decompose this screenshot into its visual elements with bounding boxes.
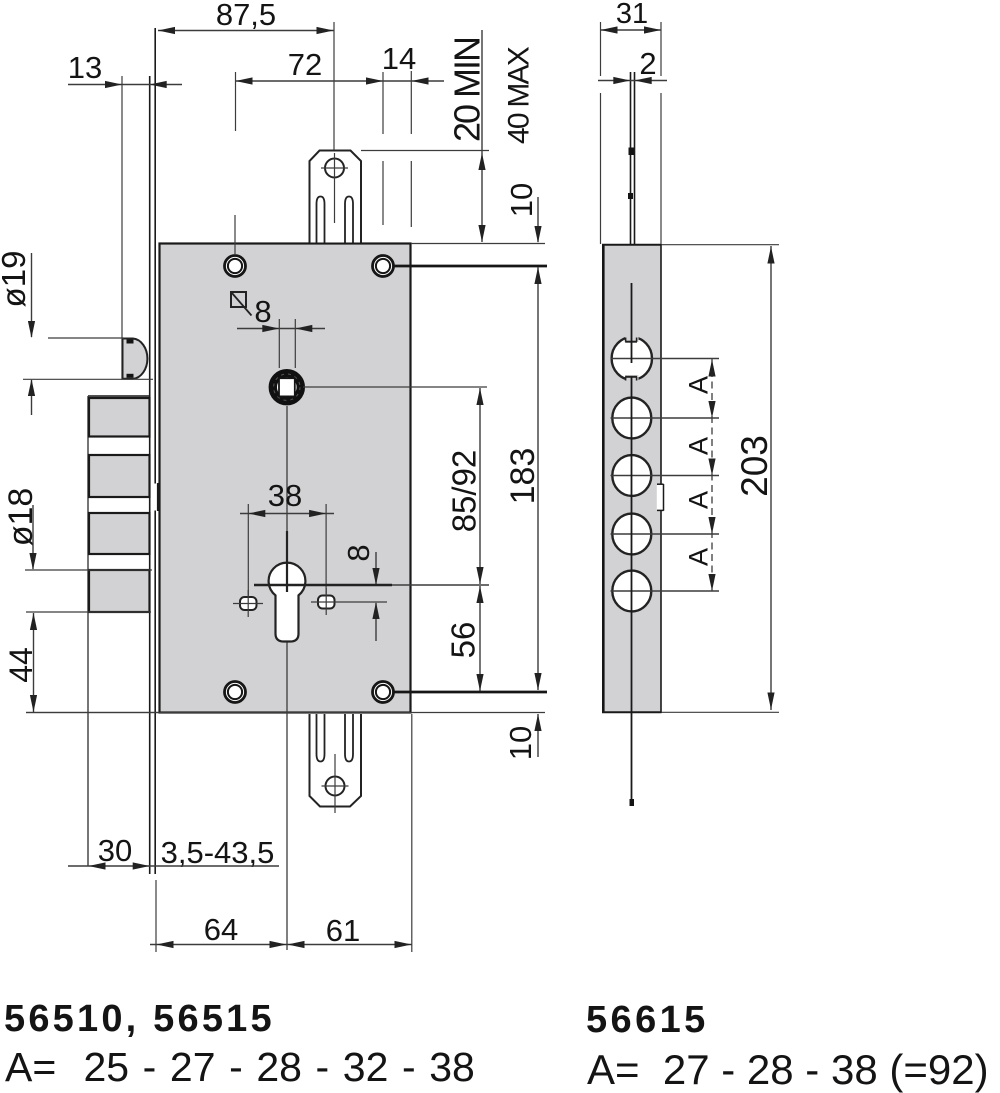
square spindle symbol [231, 292, 246, 307]
dimension 203 [734, 435, 775, 497]
svg-text:A: A [684, 548, 714, 566]
svg-text:20 MIN: 20 MIN [447, 38, 488, 142]
hole bottom-right [373, 682, 394, 703]
pin circle 1 (latch) [612, 337, 652, 380]
dimension 13 [68, 84, 182, 86]
dimension 56 [445, 622, 482, 659]
svg-text:2: 2 [639, 46, 656, 81]
fixing hole right [318, 596, 335, 609]
dimension 44 [3, 647, 39, 683]
centerline top-left hole [235, 72, 237, 131]
svg-text:56615: 56615 [586, 999, 709, 1041]
svg-text:30: 30 [98, 833, 132, 868]
pin center lines [611, 358, 720, 360]
svg-text:38: 38 [268, 478, 302, 513]
dimension ø19 [0, 251, 32, 308]
top tab slot left [317, 197, 325, 243]
cylinder horizontal reference [254, 584, 392, 586]
svg-text:ø19: ø19 [0, 251, 32, 308]
svg-text:61: 61 [326, 913, 360, 948]
dimension 14 [412, 77, 429, 84]
svg-text:3,5-43,5: 3,5-43,5 [161, 835, 275, 870]
top tab slot right [345, 197, 353, 243]
dimension ø18 [2, 488, 40, 547]
label A 3 [684, 491, 714, 509]
label A 4 [684, 548, 714, 566]
bottom hole reference line [394, 691, 548, 694]
euro cylinder hole [269, 563, 306, 642]
svg-text:56: 56 [445, 622, 482, 659]
tab top edge extension [361, 150, 489, 152]
side body [603, 245, 662, 713]
svg-text:A: A [684, 491, 714, 509]
body right edge extension up [410, 71, 412, 134]
dimension 87,5 [158, 30, 334, 32]
bottom tab slot right [345, 714, 353, 762]
dimension 8 spindle [237, 328, 325, 330]
top hole reference line [394, 265, 548, 268]
svg-text:56510, 56515: 56510, 56515 [4, 998, 275, 1040]
svg-text:31: 31 [616, 0, 648, 30]
latch bolt [123, 339, 148, 379]
svg-text:8: 8 [341, 544, 376, 561]
body bottom edge extension [26, 712, 545, 714]
label 40 MAX [503, 46, 536, 144]
svg-text:A= 25 - 27 - 28 - 32 - 38: A= 25 - 27 - 28 - 32 - 38 [5, 1044, 475, 1090]
svg-text:14: 14 [382, 41, 416, 76]
dimension 183 [504, 448, 542, 505]
side body top extension [662, 244, 780, 246]
pin circle 2 [612, 398, 651, 439]
dimension 72 [236, 80, 445, 82]
dimension 10 bottom [503, 726, 538, 760]
body top edge extension [411, 243, 545, 245]
side faceplate [630, 72, 632, 244]
dimension 20 MIN 40 MAX [481, 30, 483, 242]
dimension 10 top [504, 183, 539, 217]
bottom tab screw hole [326, 777, 345, 796]
pin circle 3 [612, 455, 651, 496]
dimension 85/92 [446, 450, 483, 533]
lock body [160, 244, 411, 713]
top tab centerline [333, 22, 335, 150]
deadbolt stack [88, 395, 151, 397]
pin circle 4 [612, 514, 651, 555]
svg-text:A= 27 - 28 - 38 (=92): A= 27 - 28 - 38 (=92) [587, 1046, 989, 1093]
label A 1 [684, 376, 714, 394]
bottom mounting tab [310, 714, 362, 807]
svg-text:A: A [684, 376, 714, 394]
side body notch [657, 485, 664, 510]
main centerline [286, 406, 288, 950]
label A 2 [684, 437, 714, 455]
dimension A chain [711, 359, 713, 592]
svg-text:10: 10 [503, 726, 538, 760]
pin circle 5 [612, 571, 651, 612]
hole top-right [373, 256, 394, 277]
top mounting tab [310, 151, 362, 243]
svg-text:40 MAX: 40 MAX [503, 46, 536, 144]
fixing hole left [240, 597, 257, 610]
spindle follower [273, 373, 301, 401]
svg-text:64: 64 [204, 912, 238, 947]
top tab screw hole [325, 159, 344, 178]
centerline top-right hole [382, 72, 384, 134]
faceplate notch [151, 484, 158, 511]
side faceplate line through body [631, 283, 633, 363]
dimension 8 cylinder offset [341, 544, 376, 561]
svg-text:10: 10 [504, 183, 539, 217]
faceplate [149, 76, 151, 874]
svg-text:183: 183 [504, 448, 542, 505]
side body bottom extension [662, 711, 780, 713]
svg-text:72: 72 [288, 47, 322, 82]
svg-text:203: 203 [734, 435, 775, 497]
svg-text:A: A [684, 437, 714, 455]
hole top-left [225, 256, 246, 277]
svg-text:85/92: 85/92 [446, 450, 483, 533]
svg-text:13: 13 [68, 50, 102, 85]
bottom tab slot left [317, 714, 325, 762]
svg-text:8: 8 [254, 294, 271, 329]
hole bottom-left [225, 682, 246, 703]
svg-text:ø18: ø18 [2, 488, 40, 547]
spindle horizontal reference [303, 386, 487, 388]
svg-text:87,5: 87,5 [216, 0, 276, 32]
